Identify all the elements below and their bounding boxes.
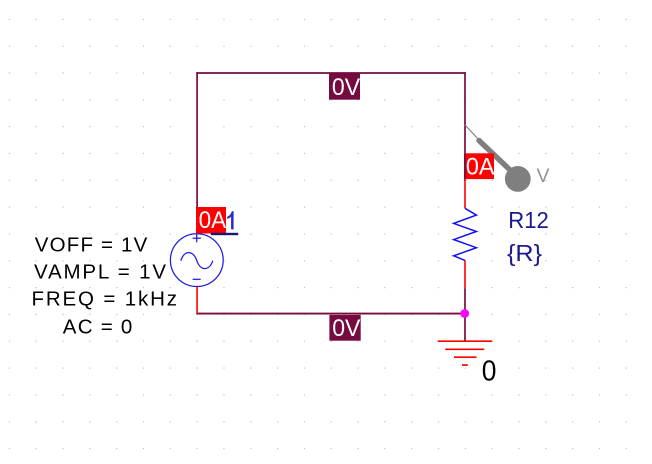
plus mark [193,237,201,239]
resistor R12 bottom pin [464,260,466,288]
source V1 top pin (red, hidden behind 0A label) [196,208,198,234]
svg-text:FREQ = 1kHz: FREQ = 1kHz [32,288,178,311]
resistor R12 top pin [464,179,466,208]
svg-text:0: 0 [482,356,497,388]
ground symbol 0 (red bars) [438,341,493,365]
underline of reference designator V1 [211,233,238,235]
svg-text:{R}: {R} [507,240,542,266]
bias voltage label 0V (bottom net) [329,315,360,342]
bias current label 0A (at source V1) [196,207,226,234]
wire overlay crossing 0A label [464,153,466,180]
wire: right vertical segment down to resistor pin (passes behind probe tip) [464,72,466,153]
bias current label 0A (at resistor R12) [464,153,495,180]
svg-text:0A: 0A [199,207,227,234]
svg-text:0V: 0V [332,315,360,342]
svg-text:VAMPL = 1V: VAMPL = 1V [34,261,166,284]
wire: left vertical segment down to source pin [196,72,198,208]
voltage probe marker (gray) [465,125,531,192]
svg-text:0V: 0V [332,74,360,101]
wire: junction to ground symbol [464,314,466,342]
svg-text:V: V [537,165,550,187]
wire: top net from source top to resistor top [196,72,466,74]
resistor R12 body (zigzag) [454,208,477,260]
wire: bottom net from source bottom to junction [196,313,466,315]
svg-text:AC = 0: AC = 0 [63,315,133,338]
sine wave [181,253,213,269]
junction dot (magenta) [460,309,469,318]
bias voltage label 0V (top net) [329,74,360,102]
svg-text:R12: R12 [508,207,549,233]
svg-text:0A: 0A [466,153,495,180]
source V1 bottom pin [196,287,198,314]
wire: resistor bottom pin to junction [464,288,466,314]
svg-text:VOFF = 1V: VOFF = 1V [35,234,148,257]
voltage source V1 circle [170,234,223,287]
reference designator V1 ("1" visible beside 0A label) [227,211,233,229]
minus mark [193,278,201,280]
